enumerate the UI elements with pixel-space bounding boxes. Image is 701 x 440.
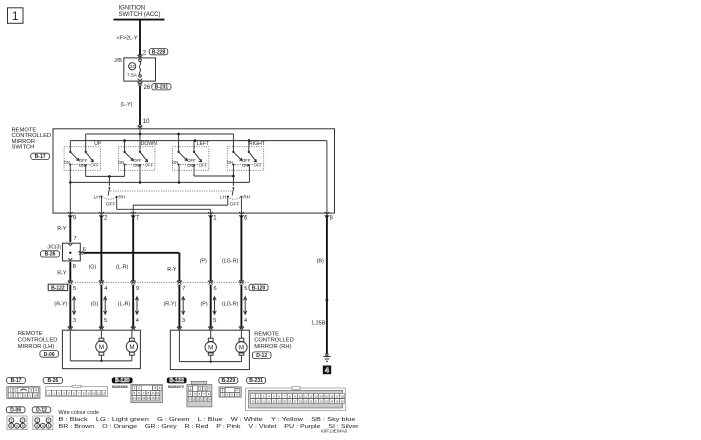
svg-text:CONTROLLED: CONTROLLED [254, 338, 294, 344]
svg-text:OFF: OFF [106, 202, 116, 208]
svg-text:(L-R): (L-R) [116, 265, 128, 271]
svg-text:7: 7 [74, 236, 77, 242]
svg-text:4: 4 [325, 368, 329, 375]
svg-text:2: 2 [199, 387, 201, 391]
svg-text:ON: ON [242, 163, 248, 168]
svg-text:4: 4 [42, 424, 44, 428]
svg-text:4: 4 [16, 424, 18, 428]
svg-text:23: 23 [130, 64, 136, 69]
svg-text:6: 6 [214, 286, 217, 292]
svg-text:(L-R): (L-R) [118, 301, 130, 307]
svg-text:MU801866: MU801866 [112, 385, 128, 389]
svg-text:2: 2 [48, 419, 50, 423]
junction J/C(3) B-26 [41, 243, 81, 261]
svg-text:B-231: B-231 [249, 378, 263, 384]
svg-text:D-12: D-12 [36, 408, 47, 414]
svg-text:OFF: OFF [230, 202, 240, 208]
svg-text:MU801979: MU801979 [168, 385, 184, 389]
svg-text:5: 5 [22, 424, 24, 428]
wire: (L-Y) feed to switch [121, 86, 151, 126]
motor M RH left/right [236, 330, 247, 361]
junction block J/B box [114, 58, 155, 81]
svg-text:BR : Brown O : Orange GR: BR : Brown O : Orange GR : Grey R : Red … [59, 424, 359, 430]
svg-text:B-122: B-122 [169, 378, 184, 384]
svg-text:9: 9 [136, 286, 139, 292]
drawing code [321, 428, 348, 433]
svg-text:<F>2L-Y: <F>2L-Y [117, 35, 138, 41]
svg-text:7.5A: 7.5A [127, 72, 138, 78]
svg-text:LH: LH [94, 195, 101, 201]
motor M LH up/down [96, 330, 107, 361]
svg-text:B-17: B-17 [11, 378, 22, 384]
svg-text:(R-Y): (R-Y) [54, 301, 67, 307]
switch DOWN dashed box [118, 141, 157, 170]
svg-text:SWITCH: SWITCH [12, 145, 35, 151]
wire: sel2 LH to terminal 7 [133, 197, 228, 214]
svg-text:ON: ON [133, 163, 139, 168]
node: U2 tap [232, 175, 235, 178]
wire: bus B to LEFT right pivot [193, 141, 195, 152]
svg-text:5: 5 [48, 424, 50, 428]
svg-text:12: 12 [309, 394, 313, 398]
wire: to mirror pin 5 (G) [91, 285, 108, 331]
wire: to mirror pin 4 (LG-R) [222, 285, 247, 331]
svg-text:10: 10 [33, 394, 37, 398]
svg-text:B-26: B-26 [45, 252, 56, 258]
switch LEFT contacts [172, 151, 208, 168]
svg-text:D-06: D-06 [10, 408, 21, 414]
fuse 23 7.5A [127, 59, 142, 81]
svg-text:1: 1 [10, 389, 12, 393]
svg-text:(LG-R): (LG-R) [222, 301, 239, 307]
svg-text:M: M [129, 344, 134, 351]
svg-text:M: M [208, 345, 213, 352]
svg-text:1: 1 [10, 419, 12, 423]
svg-text:2: 2 [22, 419, 24, 423]
wire: bus B to terminal 8 [326, 141, 328, 214]
svg-text:5: 5 [244, 286, 247, 292]
connector table B-26 [43, 377, 108, 396]
svg-text:3: 3 [30, 389, 32, 393]
svg-text:M: M [99, 344, 104, 351]
svg-text:3: 3 [10, 424, 12, 428]
motor M LH left/right [126, 330, 137, 361]
connector table B-122 [167, 377, 212, 407]
wire colour code legend [59, 410, 359, 430]
wire: J/C pin6 R-Y to B-122 pin7 [78, 247, 179, 281]
svg-text:OFF: OFF [254, 163, 263, 168]
svg-text:3: 3 [182, 318, 185, 324]
svg-text:J/C(3): J/C(3) [47, 245, 61, 251]
connector table B-229 [219, 377, 241, 397]
svg-text:10: 10 [143, 119, 150, 125]
svg-text:(P): (P) [200, 258, 207, 264]
wire: bus C common [70, 165, 249, 182]
wire: terminal 1 (P) [200, 215, 211, 281]
connector table B-17 [7, 377, 40, 398]
switch LEFT dashed box [172, 141, 210, 170]
remote controlled mirror switch outline [12, 128, 335, 214]
wire: to mirror pin 4 (L-R) [118, 285, 139, 331]
svg-text:1: 1 [189, 387, 191, 391]
svg-text:4: 4 [104, 286, 107, 292]
svg-text:8: 8 [73, 264, 76, 270]
svg-text:5: 5 [213, 318, 216, 324]
svg-text:11: 11 [97, 391, 100, 395]
svg-text:OFF: OFF [145, 163, 154, 168]
wire: terminal 8 (B) ground wire [311, 215, 328, 354]
svg-text:10: 10 [156, 391, 160, 395]
wire: LEFT middle contact down to U2 [193, 165, 195, 176]
wire: UP ON contact to terminal 9 [69, 165, 71, 214]
svg-text:ON: ON [172, 160, 178, 165]
svg-text:3: 3 [204, 387, 206, 391]
svg-text:D-12: D-12 [256, 353, 267, 359]
switch DOWN contacts [118, 151, 154, 168]
svg-text:R-Y: R-Y [57, 270, 67, 276]
svg-text:3: 3 [154, 386, 156, 390]
wire: RH pin3 to internal bus [179, 330, 241, 363]
wire: U2 link [194, 175, 233, 177]
svg-text:RH: RH [243, 195, 250, 201]
svg-text:B-17: B-17 [35, 154, 46, 160]
ground symbol [323, 353, 331, 361]
wire: sel1 LH to terminal 2 [100, 197, 102, 214]
svg-text:B-120: B-120 [252, 285, 266, 291]
svg-text:LH: LH [220, 195, 227, 201]
svg-text:5: 5 [73, 286, 76, 292]
node: U1 tap [108, 175, 111, 178]
svg-text:B : Black LG : Light green: B : Black LG : Light green G : Green L :… [59, 417, 356, 423]
svg-text:LEFT: LEFT [197, 141, 211, 147]
svg-text:(G): (G) [91, 301, 99, 307]
terminals 9 2 7 1 6 8 [68, 212, 334, 222]
svg-text:1: 1 [222, 388, 224, 392]
svg-text:IGNITION: IGNITION [119, 6, 146, 12]
svg-text:UP: UP [94, 141, 102, 147]
remote controlled mirror LH box [18, 330, 141, 369]
wire: terminal 6 (LG-R) [222, 215, 242, 281]
wire: bus B to UP left pivot [69, 141, 71, 152]
node: pin 26 connector B-231 [137, 82, 171, 91]
wire: DOWN middle contact to bus C [139, 165, 141, 182]
wire: DOWN ON contact down to U1 [124, 165, 126, 177]
motor M RH up/down [205, 330, 216, 361]
node: pin 2 connector B-228 [137, 49, 167, 59]
svg-text:Wire colour code: Wire colour code [59, 410, 99, 416]
svg-text:(G): (G) [89, 265, 97, 271]
svg-text:4: 4 [35, 389, 37, 393]
svg-text:(B): (B) [317, 258, 324, 264]
wire: feed drop pin10 to bus A [139, 129, 141, 134]
svg-text:26: 26 [144, 85, 151, 91]
svg-text:4: 4 [136, 318, 139, 324]
svg-text:10: 10 [299, 394, 303, 398]
wire: feed to DOWN right pivot [139, 134, 141, 152]
svg-text:10: 10 [92, 391, 96, 395]
svg-text:16: 16 [330, 394, 334, 398]
wire: bus B to RIGHT right pivot [248, 141, 250, 152]
wire: terminal 7 (L-R) [116, 215, 133, 281]
svg-text:R-Y: R-Y [167, 267, 177, 273]
svg-text:OFF: OFF [91, 163, 100, 168]
connector crossings with pin numbers [68, 280, 248, 292]
connector table D-12 [32, 407, 53, 430]
wire: to mirror pin 3 (R-Y) [54, 285, 76, 331]
svg-text:B-229: B-229 [221, 378, 235, 384]
wire: RIGHT ON contact down to U2 [232, 165, 234, 176]
svg-text:B-122: B-122 [51, 285, 65, 291]
svg-text:18: 18 [341, 394, 345, 398]
svg-text:RH: RH [119, 195, 126, 201]
wire: ignition feed 2L-Y [117, 20, 140, 56]
svg-text:REMOTE: REMOTE [18, 331, 43, 337]
svg-text:REMOTE: REMOTE [254, 331, 279, 337]
svg-text:ON: ON [64, 160, 70, 165]
svg-text:13: 13 [314, 394, 318, 398]
selector link dashed [111, 190, 234, 192]
svg-text:1.25B: 1.25B [311, 320, 325, 326]
svg-text:B-120: B-120 [115, 378, 130, 384]
svg-text:15: 15 [325, 394, 329, 398]
svg-text:MIRROR (LH): MIRROR (LH) [18, 344, 54, 350]
wire: J/C pin8 R-Y down [57, 262, 76, 281]
svg-text:RIGHT: RIGHT [249, 141, 266, 147]
wire: sel1 RH to terminal 1 [117, 197, 211, 213]
svg-text:DOWN: DOWN [141, 141, 158, 147]
svg-text:B-26: B-26 [47, 378, 58, 384]
svg-text:1: 1 [36, 419, 38, 423]
wire: to mirror pin 3 (R-Y) [164, 285, 186, 331]
svg-text:2: 2 [138, 386, 140, 390]
svg-text:B-228: B-228 [152, 50, 166, 56]
svg-text:12: 12 [102, 391, 106, 395]
svg-text:3: 3 [73, 318, 76, 324]
svg-text:K9F13E04A0: K9F13E04A0 [321, 428, 348, 433]
svg-text:(P): (P) [201, 301, 208, 307]
svg-text:14: 14 [320, 394, 324, 398]
ignition switch (ACC) source bar [114, 6, 165, 20]
svg-text:ON: ON [118, 160, 124, 165]
wire: U1 link [86, 175, 125, 177]
svg-text:17: 17 [335, 394, 339, 398]
wire: sel2 RH to terminal 6 [240, 197, 242, 213]
wire: terminal 2 (G) [89, 215, 102, 281]
switch UP contacts [64, 151, 100, 168]
connector table B-231 [246, 377, 346, 410]
wire: bus A feed [86, 133, 234, 135]
svg-text:2: 2 [15, 389, 17, 393]
svg-text:11: 11 [304, 394, 307, 398]
switch RIGHT contacts [227, 151, 263, 168]
svg-text:5: 5 [104, 318, 107, 324]
page number 1 box [8, 8, 24, 23]
svg-text:M: M [239, 345, 244, 352]
selector switch LH/RH (right mirror select) [220, 176, 251, 207]
switch UP dashed box [64, 141, 102, 170]
remote controlled mirror RH box [170, 330, 294, 369]
svg-text:4: 4 [244, 318, 247, 324]
wire: terminal 9 R-Y to J/C [57, 215, 76, 242]
wire: bus A to LEFT left pivot [178, 134, 180, 152]
wire: bus A to UP right pivot [85, 134, 87, 152]
wire: LEFT ON contact to bus C [178, 165, 180, 183]
svg-text:R-Y: R-Y [57, 226, 67, 232]
switch RIGHT dashed box [227, 141, 266, 170]
node: bus A junctions [139, 133, 180, 136]
svg-text:1: 1 [133, 386, 135, 390]
wire: bus A to RIGHT left pivot [232, 134, 234, 152]
node: pin 10 entry [137, 125, 142, 129]
svg-text:MIRROR (RH): MIRROR (RH) [254, 344, 291, 350]
ground reference 4 black box [323, 366, 331, 375]
wire: bus B [70, 140, 327, 142]
svg-text:J/B: J/B [114, 58, 122, 64]
svg-text:(L-Y): (L-Y) [121, 102, 133, 108]
svg-text:D-06: D-06 [44, 352, 55, 358]
wire: LH pin3 to internal bus [70, 330, 132, 362]
connector row B-122 B-120 dashed [48, 282, 268, 291]
svg-text:1: 1 [12, 11, 18, 23]
connector table B-120 [112, 377, 163, 402]
svg-text:2: 2 [236, 388, 238, 392]
node: bus B junctions [123, 139, 250, 142]
svg-text:(LG-R): (LG-R) [222, 258, 239, 264]
svg-text:(R-Y): (R-Y) [164, 301, 177, 307]
connector table D-06 [6, 407, 27, 430]
selector switch LH/RH (left mirror select) [94, 176, 126, 207]
svg-text:OFF: OFF [199, 163, 208, 168]
wire: to mirror pin 5 (P) [201, 285, 217, 331]
node: bus C junctions [69, 181, 180, 184]
svg-text:ON: ON [79, 163, 85, 168]
svg-text:3: 3 [36, 424, 38, 428]
svg-text:ON: ON [187, 163, 193, 168]
svg-text:4: 4 [159, 386, 161, 390]
svg-text:7: 7 [182, 286, 185, 292]
svg-text:CONTROLLED: CONTROLLED [18, 338, 58, 344]
svg-text:ON: ON [227, 160, 233, 165]
wire: UP middle contact down to U1 [85, 165, 87, 176]
wire: bus B to DOWN left pivot [124, 141, 126, 152]
svg-text:B-231: B-231 [155, 85, 169, 91]
svg-text:SWITCH (ACC): SWITCH (ACC) [119, 12, 161, 18]
